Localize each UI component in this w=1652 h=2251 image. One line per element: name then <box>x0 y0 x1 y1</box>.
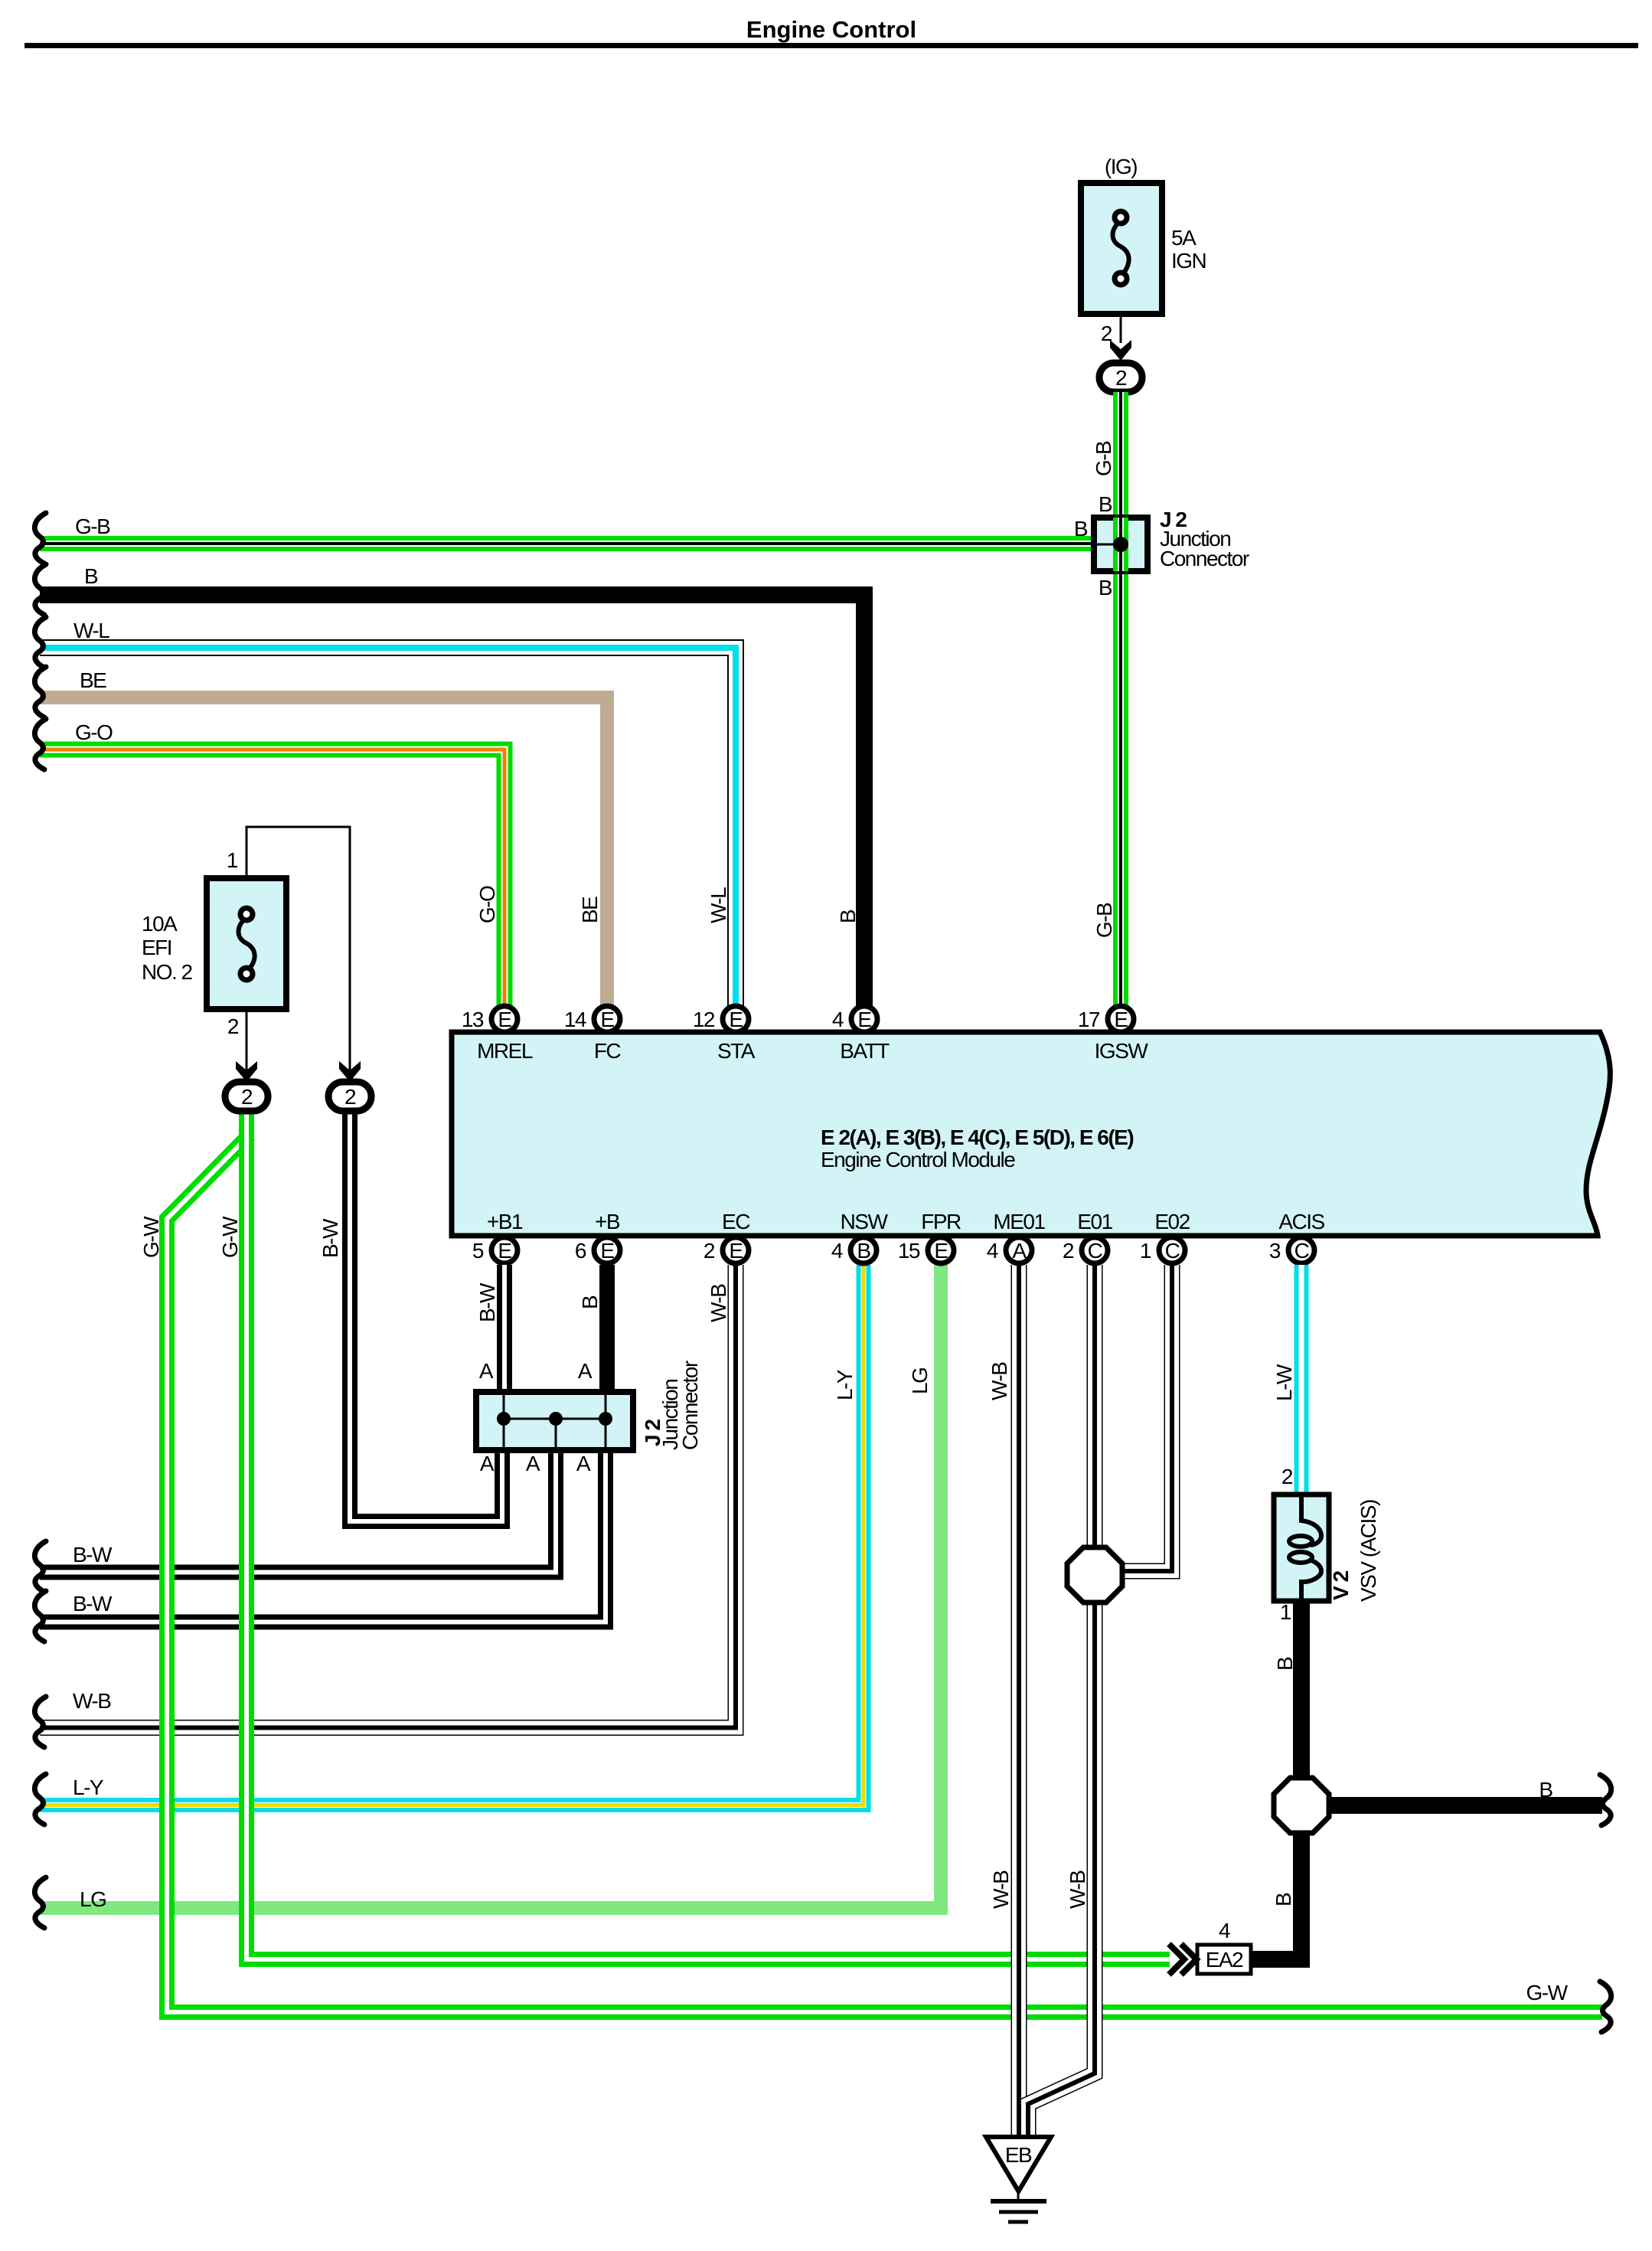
svg-text:B-W: B-W <box>73 1592 113 1616</box>
svg-text:ACIS: ACIS <box>1278 1210 1324 1233</box>
svg-text:4: 4 <box>1219 1919 1230 1942</box>
svg-text:Engine Control Module: Engine Control Module <box>821 1148 1015 1171</box>
svg-text:E: E <box>600 1008 614 1031</box>
svg-text:Connector: Connector <box>1160 547 1249 570</box>
svg-text:B-W: B-W <box>475 1282 499 1322</box>
svg-text:NSW: NSW <box>841 1210 889 1233</box>
svg-text:(IG): (IG) <box>1105 155 1137 178</box>
svg-text:E: E <box>498 1008 511 1031</box>
svg-text:G-W: G-W <box>218 1216 242 1258</box>
svg-text:4: 4 <box>987 1239 998 1263</box>
svg-text:6: 6 <box>575 1239 586 1263</box>
svg-text:W-B: W-B <box>989 1870 1013 1909</box>
svg-text:E01: E01 <box>1077 1210 1112 1233</box>
svg-text:15: 15 <box>898 1239 920 1263</box>
svg-text:W-B: W-B <box>73 1689 111 1713</box>
svg-text:13: 13 <box>462 1008 484 1031</box>
svg-text:FPR: FPR <box>921 1210 961 1233</box>
svg-text:12: 12 <box>693 1008 715 1031</box>
svg-text:B: B <box>1272 1893 1295 1906</box>
svg-text:E: E <box>1114 1008 1128 1031</box>
svg-text:L-W: L-W <box>1272 1364 1296 1401</box>
svg-text:B: B <box>857 1239 870 1263</box>
svg-text:A: A <box>479 1359 494 1383</box>
svg-text:BE: BE <box>80 668 106 692</box>
svg-text:W-B: W-B <box>1066 1870 1089 1909</box>
svg-text:Connector: Connector <box>678 1361 702 1450</box>
svg-text:BATT: BATT <box>840 1039 890 1063</box>
svg-text:EFI: EFI <box>142 936 171 959</box>
svg-text:B-W: B-W <box>73 1543 113 1567</box>
svg-text:W-L: W-L <box>73 619 109 642</box>
svg-text:E: E <box>729 1008 743 1031</box>
svg-text:4: 4 <box>832 1008 844 1031</box>
svg-text:B: B <box>1099 576 1112 600</box>
svg-text:W-L: W-L <box>707 887 730 923</box>
svg-text:LG: LG <box>908 1368 932 1394</box>
svg-text:B: B <box>1074 517 1088 541</box>
svg-text:B: B <box>836 910 860 923</box>
svg-text:C: C <box>1295 1239 1310 1263</box>
svg-text:G-W: G-W <box>1526 1981 1568 2004</box>
svg-text:IGSW: IGSW <box>1095 1039 1149 1063</box>
svg-text:E: E <box>934 1239 948 1263</box>
svg-text:EB: EB <box>1005 2143 1032 2167</box>
svg-text:4: 4 <box>831 1239 843 1263</box>
svg-text:L-Y: L-Y <box>73 1776 104 1799</box>
svg-text:E02: E02 <box>1154 1210 1190 1233</box>
svg-text:E: E <box>857 1008 871 1031</box>
svg-text:LG: LG <box>80 1887 106 1911</box>
svg-text:G-B: G-B <box>1092 441 1115 476</box>
svg-text:5: 5 <box>472 1239 484 1263</box>
svg-text:L-Y: L-Y <box>833 1369 857 1400</box>
svg-text:B: B <box>1539 1778 1552 1802</box>
svg-text:17: 17 <box>1078 1008 1100 1031</box>
svg-text:C: C <box>1165 1239 1180 1263</box>
svg-text:A: A <box>576 1452 591 1475</box>
svg-text:1: 1 <box>1140 1239 1151 1263</box>
svg-text:B: B <box>84 564 98 588</box>
svg-text:10A: 10A <box>142 912 178 936</box>
svg-text:14: 14 <box>564 1008 586 1031</box>
svg-text:C: C <box>1088 1239 1103 1263</box>
svg-text:2: 2 <box>1281 1465 1293 1488</box>
svg-text:ME01: ME01 <box>993 1210 1045 1233</box>
svg-text:G-O: G-O <box>475 886 499 923</box>
svg-text:1: 1 <box>1280 1600 1291 1624</box>
svg-text:V 2: V 2 <box>1329 1571 1353 1600</box>
svg-text:G-O: G-O <box>75 720 113 744</box>
svg-text:B: B <box>1099 492 1112 516</box>
svg-text:W-B: W-B <box>988 1362 1011 1400</box>
svg-text:2: 2 <box>704 1239 715 1263</box>
svg-text:EC: EC <box>722 1210 750 1233</box>
svg-text:+B1: +B1 <box>487 1210 523 1233</box>
svg-text:Engine Control: Engine Control <box>746 16 916 43</box>
svg-text:IGN: IGN <box>1171 249 1206 273</box>
svg-text:G-W: G-W <box>139 1216 163 1258</box>
svg-text:A: A <box>480 1452 495 1475</box>
svg-text:G-B: G-B <box>1092 903 1116 938</box>
svg-text:2: 2 <box>1063 1239 1074 1263</box>
svg-text:A: A <box>1012 1239 1027 1263</box>
svg-text:1: 1 <box>227 848 238 872</box>
svg-text:BE: BE <box>578 897 602 923</box>
svg-text:E 2(A), E 3(B), E 4(C), E 5(D): E 2(A), E 3(B), E 4(C), E 5(D), E 6(E) <box>821 1125 1133 1149</box>
svg-text:W-B: W-B <box>707 1284 730 1322</box>
svg-text:VSV (ACIS): VSV (ACIS) <box>1357 1500 1380 1602</box>
svg-text:A: A <box>578 1359 593 1383</box>
svg-text:G-B: G-B <box>75 515 110 538</box>
svg-text:STA: STA <box>717 1039 756 1063</box>
svg-text:MREL: MREL <box>477 1039 533 1063</box>
svg-text:FC: FC <box>594 1039 622 1063</box>
svg-text:B: B <box>578 1295 602 1309</box>
svg-text:2: 2 <box>227 1014 239 1038</box>
svg-text:5A: 5A <box>1171 226 1197 250</box>
svg-text:+B: +B <box>595 1210 620 1233</box>
svg-text:E: E <box>600 1239 614 1263</box>
svg-text:E: E <box>729 1239 743 1263</box>
svg-text:E: E <box>498 1239 511 1263</box>
svg-text:3: 3 <box>1269 1239 1281 1263</box>
svg-text:B-W: B-W <box>318 1218 342 1258</box>
svg-text:A: A <box>526 1452 540 1475</box>
svg-text:NO. 2: NO. 2 <box>142 960 193 984</box>
svg-text:EA2: EA2 <box>1206 1948 1243 1972</box>
svg-text:B: B <box>1273 1657 1297 1671</box>
